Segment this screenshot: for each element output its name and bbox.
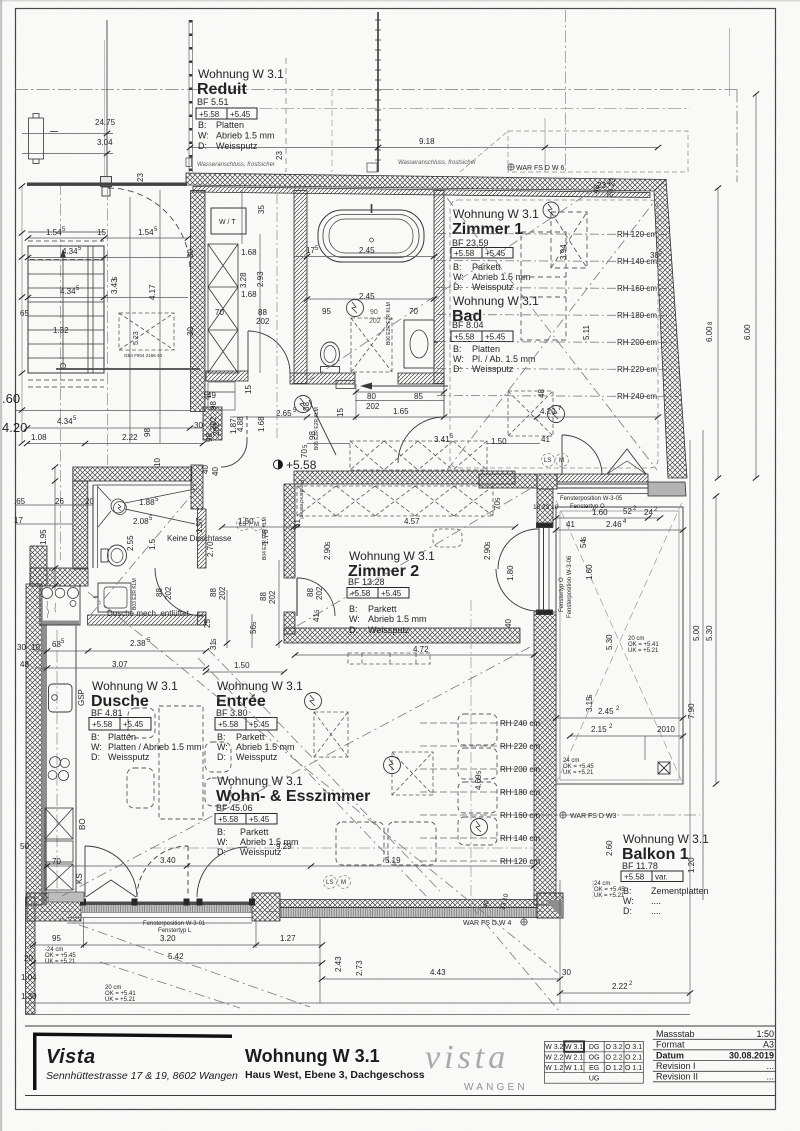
small box at wasseranschluss [367,163,377,172]
left exterior wall below bottom wall [26,897,36,1014]
Entree [215,679,303,762]
svg-text:1:50: 1:50 [756,1029,774,1039]
svg-text:A3: A3 [763,1040,774,1050]
svg-text:W 2.2: W 2.2 [545,1055,563,1062]
sink [49,684,73,712]
svg-text:O 3.2: O 3.2 [606,1044,623,1051]
right margin dims [703,94,756,900]
vertical dash-dot right [736,90,738,183]
dashed chair Zimmer2 [433,529,462,547]
dining table dashed [127,706,231,819]
Dusche bottom wall [88,615,206,625]
Zimmer1 balcony door arc + folding leaves [562,435,602,475]
kitchen top unit [40,586,80,625]
stairwell dims [15,190,203,590]
door arc hall->Zimmer1 [398,417,444,463]
bottom right corner block [537,893,563,918]
shower Bad dashed [351,318,392,372]
corridor threshold rects [208,382,235,392]
pier at corridor/entree [203,407,222,440]
svg-text:Wohnung W 3.1: Wohnung W 3.1 [245,1046,380,1066]
closet row Zimmer2 (dashed X) [297,486,493,516]
left vertical dash-dot axis [60,183,62,560]
Zimmer2 dims [295,527,534,655]
lintel above balcony door Zimmer1 [557,474,648,482]
top text labels [95,118,564,182]
staircase [28,232,104,387]
svg-text:O 3.1: O 3.1 [625,1044,642,1051]
skylight dashed stairwell [119,313,174,350]
Dusche area dims [17,391,507,669]
svg-text:W 1.1: W 1.1 [565,1065,583,1072]
left exterior wall [26,584,42,905]
bottom wall: left corner block [27,893,81,921]
shower Dusche floor drain rays [93,485,196,568]
door Bad sliding arrow [336,381,448,390]
interior dark finish strips (kitchen) [42,621,79,626]
svg-text:Massstab: Massstab [656,1029,695,1039]
svg-text:DG: DG [589,1044,600,1051]
closet row hallway (dashed X) [350,441,487,470]
svg-text:UG: UG [589,1076,600,1083]
wall between Bad and Zimmer 1 [434,191,444,384]
tall cabinet column corridor [208,244,238,373]
info table [653,1039,776,1082]
roof edge line left of entrance [27,183,187,186]
svg-text:O 2.1: O 2.1 [625,1055,642,1062]
svg-text:Format: Format [656,1040,685,1050]
window jamb blobs bottom window [80,899,255,906]
concrete corner balcony top [648,482,686,496]
svg-text:Sennhüttestrasse 17 & 19, 8602: Sennhüttestrasse 17 & 19, 8602 Wangen [46,1070,238,1082]
living room dims [47,865,534,867]
door leaf corridor diag [309,400,336,455]
svg-text:30.08.2019: 30.08.2019 [729,1050,774,1060]
pier below balcony door [537,489,553,527]
kitchen tall units X [45,808,84,902]
Zimmer1 furniture [521,212,587,340]
window symbol far left [29,114,59,164]
Dusche right wall pieces [198,509,207,568]
svg-text:O 1.1: O 1.1 [625,1065,642,1072]
sofa L dashed [336,714,497,865]
window W-3-06 Zimmer2->balcony [537,523,553,615]
left bottom chain labels [21,954,37,1001]
svg-text:W 3.1: W 3.1 [565,1044,583,1051]
door Zimmer2 arc [297,578,335,616]
dash-dot balcony axis [520,814,700,816]
vista logo black L frame [33,1033,232,1091]
svg-text:WANGEN: WANGEN [464,1082,528,1093]
left page-margin dim chain [21,186,23,443]
washbasin Dusche [93,583,131,612]
svg-text:Revision I: Revision I [656,1061,696,1071]
vertical double line x189 [188,20,190,172]
svg-text:W 2.1: W 2.1 [565,1055,583,1062]
dashed region WAR FS D W6 [508,131,688,172]
unit selection table [545,1041,644,1083]
Balkon 1 [621,832,709,916]
door Dusche arc [155,568,203,616]
washbasin Bad [404,320,438,368]
top exterior wall [186,173,666,191]
entree passage dims [249,590,277,634]
wall between Reduit corridor and Bad [294,191,307,384]
svg-text:W 1.2: W 1.2 [545,1065,563,1072]
toilet Dusche [101,545,127,566]
hallway dims [230,384,658,444]
LS / M dashed circle pairs [237,454,569,889]
svg-text:Haus West, Ebene 3, Dachgescho: Haus West, Ebene 3, Dachgeschoss [245,1069,425,1081]
bottom wall window 1 strip [81,902,252,906]
svg-text:O 2.2: O 2.2 [606,1055,623,1062]
Dusche top wall [73,467,192,481]
tiny rotated door tags [132,302,392,610]
Dusche left wall [73,481,88,569]
svg-text:OG: OG [589,1055,600,1062]
lamp symbols (circle with lightning arrow) [114,300,565,836]
svg-text:Datum: Datum [656,1050,684,1060]
long dash-dot datum top [15,89,737,91]
hob 2x2 [48,757,69,781]
kitchen counter edge [75,626,77,893]
bathtub [318,204,424,262]
Bad bottom wall left piece [290,373,355,384]
svg-text:EG: EG [589,1065,599,1072]
W/T appliance [211,208,246,234]
svg-text:O 1.2: O 1.2 [606,1065,623,1072]
vertical line x107 [106,20,108,185]
vertical dash-dot x565 [565,10,567,172]
french doors Zimmer2 -> balcony [498,529,538,569]
svg-text:W 3.2: W 3.2 [545,1044,563,1051]
door corridor->Entree arc [221,441,247,467]
Bad [451,294,539,374]
bottom dims [25,880,690,1015]
Zimmer 2 [347,549,435,635]
extra living room refs [150,600,534,905]
Reduit [196,67,284,151]
Zimmer1 dashed room boundary [450,200,658,468]
roof window dashed rects living [314,391,553,795]
ruler line x378 [377,12,379,172]
Zimmer1 bottom wall left pier [537,474,557,489]
dim line 9.18 [190,147,658,149]
Dusche [89,679,202,762]
wall left of corridor (Reduit) [191,191,206,412]
svg-text:Vista: Vista [46,1046,96,1068]
corridor dash-dot axis [276,194,278,440]
svg-text:Revision II: Revision II [656,1072,698,1082]
toilet Bad [321,342,340,373]
wall Zimmer2 bottom [284,628,520,643]
bottom wall pier [252,893,280,921]
balcony top wall window (french door W-3-05) [557,484,648,494]
dash-dot through bottom window band [40,911,556,913]
svg-text:...: ... [766,1061,774,1071]
corridor door arc at bottom [248,331,290,373]
svg-text:...: ... [766,1072,774,1082]
stair landing edge [56,368,200,370]
kitchen labels [20,689,87,884]
wall Zimmer2 left [284,484,295,578]
Zimmer 1 [451,207,539,292]
corridor bottom wall piece [206,371,248,381]
wall Zimmer2/balcony right (below window) [534,612,556,905]
dim lines 24.75 / 3.04 [22,133,113,135]
Bad bottom wall right piece [398,373,444,384]
entrance door dashed arc [108,188,190,270]
bottom wall right run [280,900,537,908]
corridor Reduit dims [242,190,434,373]
svg-text:vista: vista [425,1039,509,1076]
Wohn- & Esszimmer [215,774,370,857]
left exterior step wall (corner) [30,546,47,586]
bottom wall doors (window1) [85,846,247,897]
right exterior wall (slanted) [654,180,687,479]
wall Zimmer2 top [294,471,515,484]
